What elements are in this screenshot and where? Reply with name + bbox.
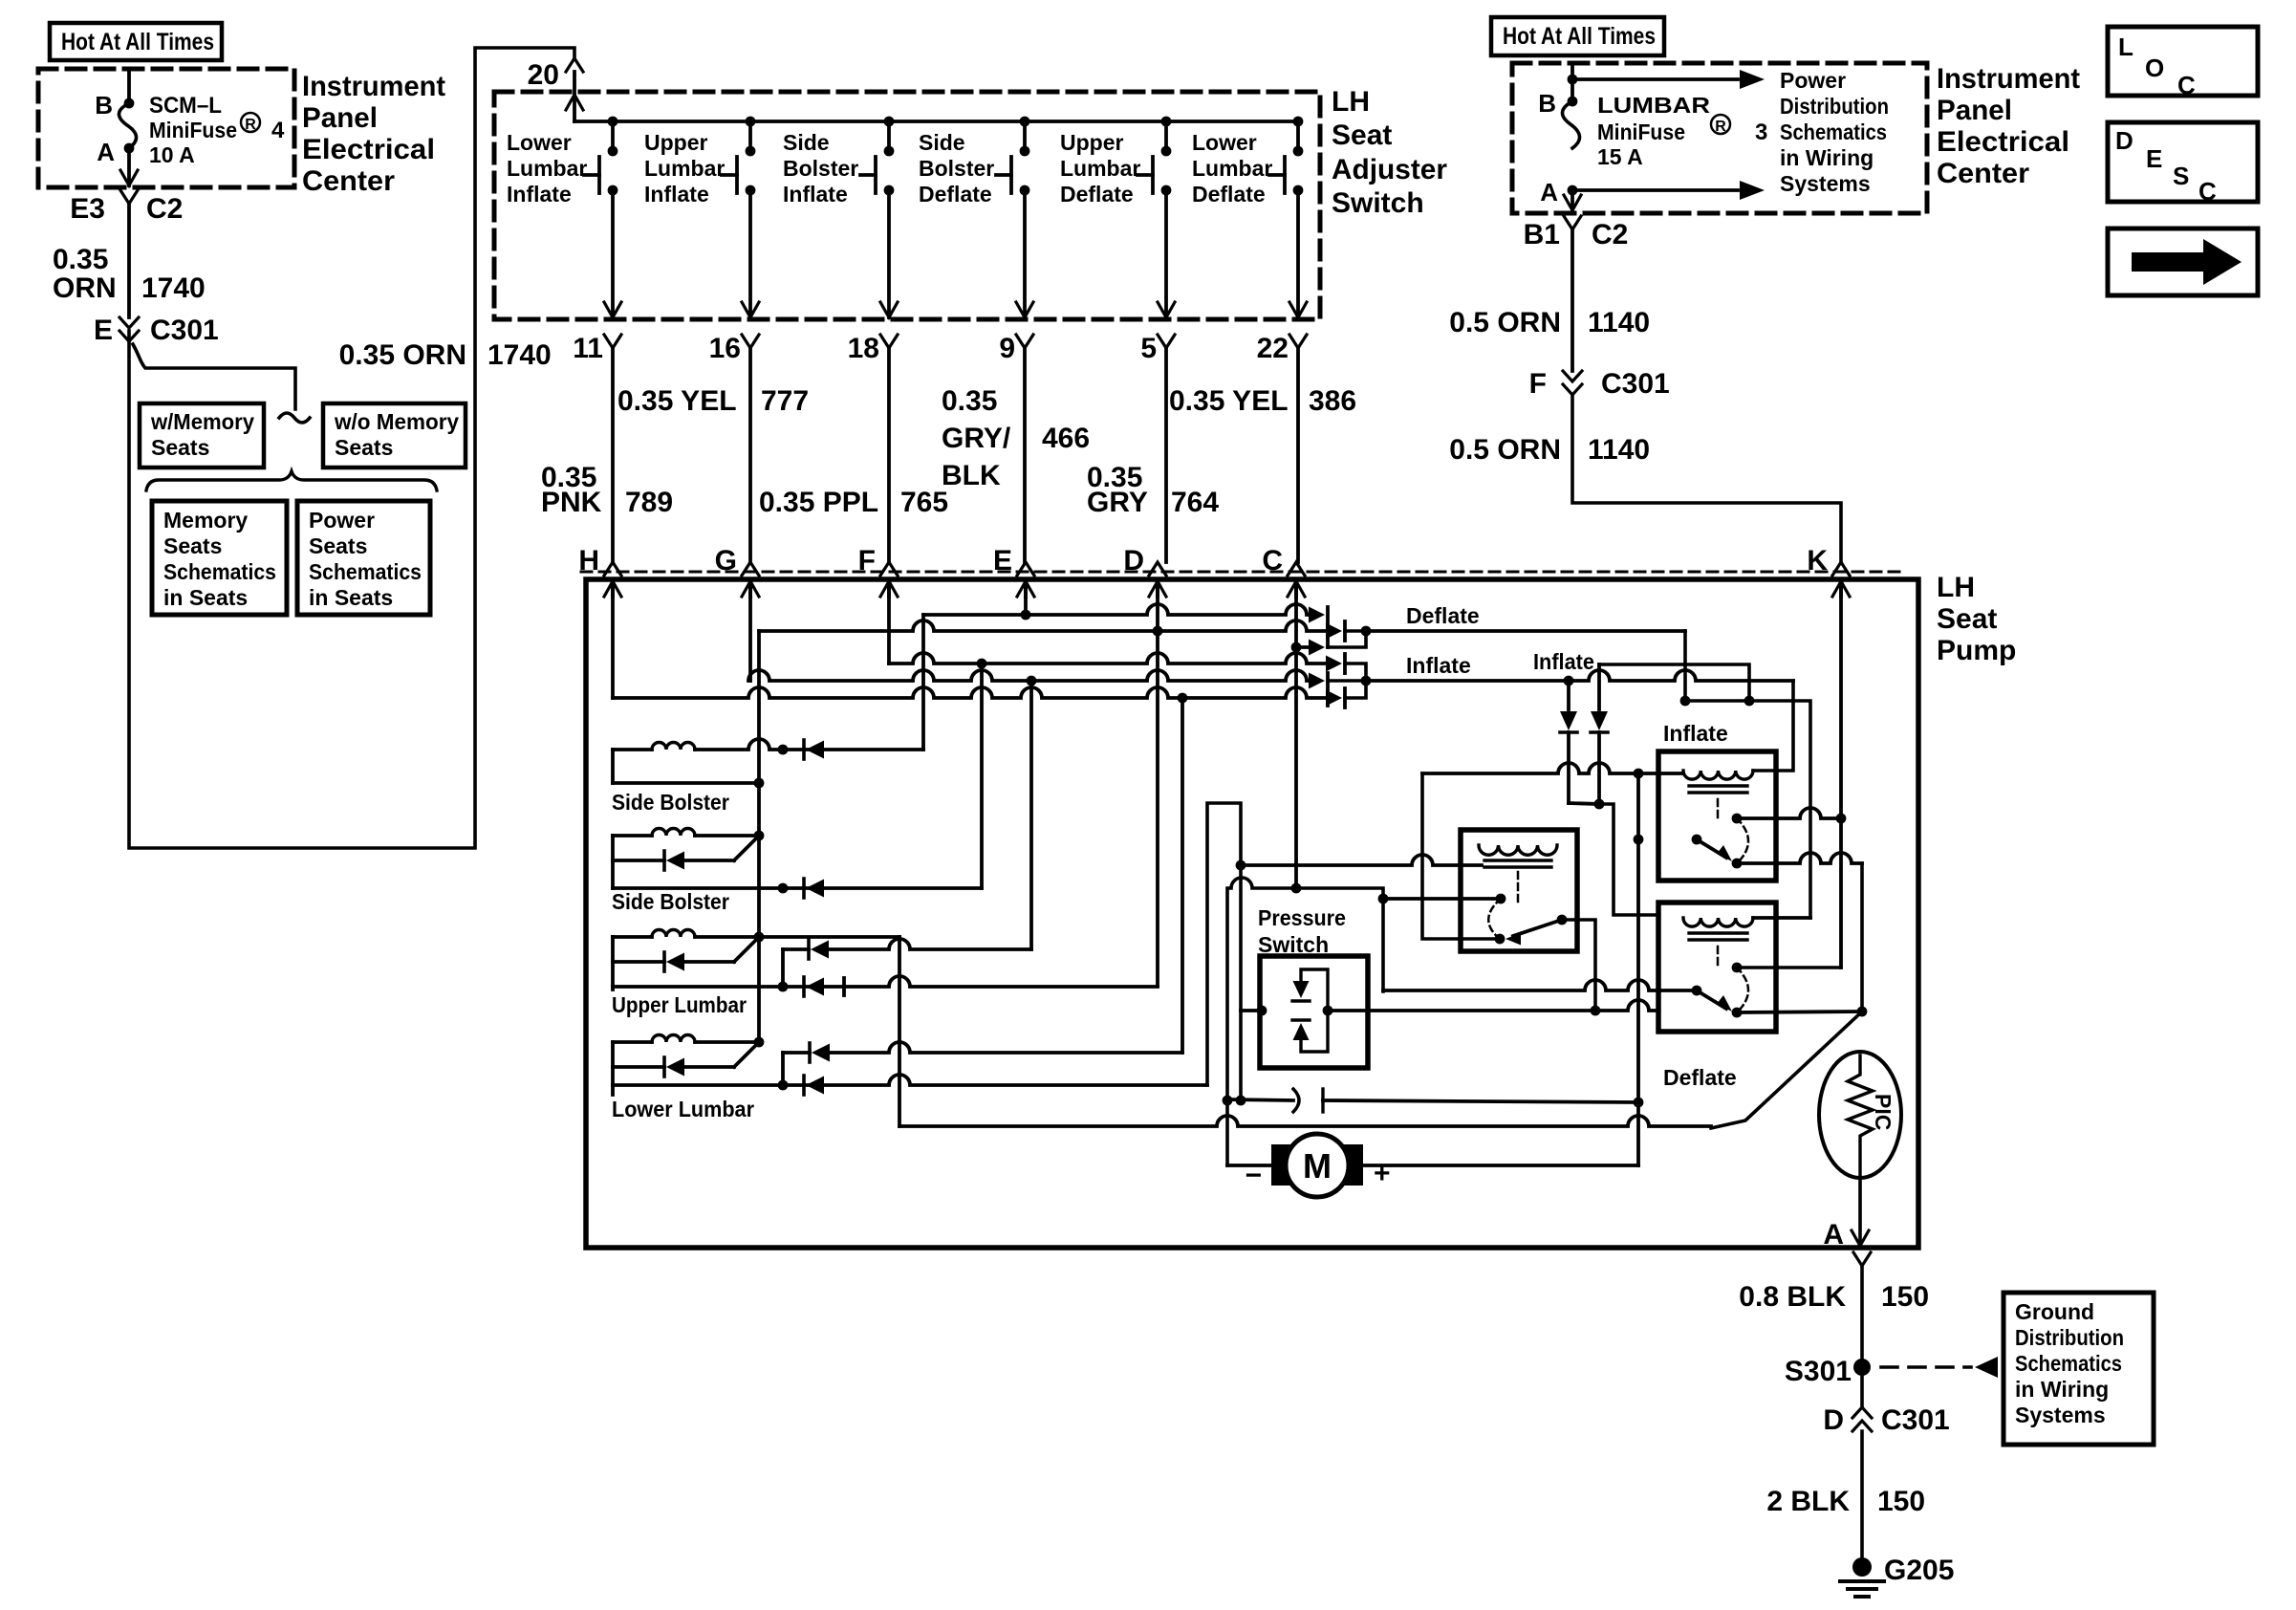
svg-text:Lower: Lower <box>1192 130 1257 155</box>
svg-text:E3: E3 <box>70 193 105 225</box>
wire: 2 BLK 150 from C301 to G205 <box>1860 1431 1864 1564</box>
svg-text:Switch: Switch <box>1258 932 1329 957</box>
svg-text:BLK: BLK <box>942 460 1001 491</box>
svg-text:in Seats: in Seats <box>163 585 248 610</box>
wire: deflate coil right feed <box>1753 916 1810 920</box>
svg-text:5: 5 <box>1140 333 1157 364</box>
svg-text:B: B <box>95 91 113 120</box>
svg-text:Power: Power <box>1780 68 1846 93</box>
svg-text:A: A <box>97 138 115 166</box>
wire: deflate relay common from K <box>1737 966 1841 969</box>
svg-text:2 BLK: 2 BLK <box>1766 1486 1850 1517</box>
wire: 0.35 ORN 1740 from C2 to C301 <box>127 204 131 317</box>
wire: right free-wheel diode up and over to 733 line <box>1599 664 1749 701</box>
arrow into pump at pin F <box>880 581 898 597</box>
svg-text:S301: S301 <box>1785 1356 1852 1387</box>
svg-text:0.5 ORN: 0.5 ORN <box>1449 307 1561 338</box>
node B of fuse 3 <box>1568 97 1578 107</box>
svg-text:Upper Lumbar: Upper Lumbar <box>612 992 747 1017</box>
wire: inflate output bus to inflate relay coil drop <box>1366 670 1793 681</box>
svg-text:Inflate: Inflate <box>783 182 848 207</box>
relay box: pump internal relay (middle) <box>1461 830 1577 951</box>
svg-text:Deflate: Deflate <box>1663 1065 1737 1090</box>
svg-text:D: D <box>1123 545 1144 577</box>
svg-text:Deflate: Deflate <box>1060 182 1134 207</box>
svg-text:386: 386 <box>1309 385 1356 417</box>
svg-text:Systems: Systems <box>2015 1403 2106 1427</box>
wire: feed into fuse SCM-L from top <box>127 71 131 103</box>
arrow into pump at pin D <box>1149 581 1166 597</box>
svg-text:22: 22 <box>1257 333 1289 364</box>
free-wheel diode (right) below inflate bus <box>1597 664 1601 709</box>
wire: lower lumbar output row <box>613 1075 1207 1085</box>
box: Pressure Switch <box>1260 956 1368 1068</box>
arrow into pump at pin C <box>1288 581 1305 597</box>
diode cluster: inflate diode d5 (from G L4) <box>1309 673 1325 689</box>
relay dashed actuator (deflate) <box>1717 946 1720 966</box>
svg-text:Upper: Upper <box>1060 130 1124 155</box>
node A of fuse 3 <box>1568 185 1578 196</box>
dashed box: LH Seat Adjuster Switch <box>494 92 1320 319</box>
svg-text:E: E <box>94 315 113 346</box>
wire: branch from C301 to w/o memory squiggle <box>133 344 295 409</box>
node: K at inflate relay <box>1836 814 1847 824</box>
wire: pressure output to deflate relay left contact row <box>1595 1000 1658 1011</box>
svg-text:Instrument: Instrument <box>1937 63 2080 95</box>
svg-text:Side: Side <box>919 130 965 155</box>
wire: 0.5 ORN 1140 from C301 to pump pin K <box>1572 395 1841 562</box>
box: LH Seat Pump <box>586 579 1918 1248</box>
svg-text:K: K <box>1807 545 1828 577</box>
svg-text:Adjuster: Adjuster <box>1332 154 1447 185</box>
wire: v941 riser from upper lumbar coil row down to long bottom bus <box>759 935 899 939</box>
diode cluster: deflate diode d1 (from E) <box>1309 607 1325 623</box>
wire from switch pin 16 down to pump pin <box>748 348 752 562</box>
svg-text:1740: 1740 <box>141 272 206 304</box>
wire: S301 to C301 pin D <box>1860 1367 1864 1407</box>
node: riser at inflate relay contact <box>1634 835 1644 845</box>
svg-text:MiniFuse: MiniFuse <box>149 118 237 142</box>
wire: pin H column down to inflate bus L5 <box>611 585 615 698</box>
svg-text:0.35: 0.35 <box>942 385 997 417</box>
svg-text:Pressure: Pressure <box>1258 905 1346 930</box>
svg-text:A: A <box>1540 178 1558 207</box>
svg-text:M: M <box>1303 1146 1332 1186</box>
DESC reference box <box>2108 122 2258 202</box>
svg-text:Lumbar: Lumbar <box>507 156 587 181</box>
svg-text:789: 789 <box>625 487 673 518</box>
svg-text:H: H <box>578 545 599 577</box>
forward arrow box <box>2108 228 2258 295</box>
node: supply at pressure contact line <box>1223 1096 1233 1106</box>
wire from switch pin 9 down to pump pin <box>1023 348 1027 562</box>
svg-text:Bolster: Bolster <box>783 156 858 181</box>
switch Lower Lumbar Inflate in adjuster switch <box>608 117 618 127</box>
svg-text:C: C <box>2177 71 2196 99</box>
switch Lower Lumbar Deflate in adjuster switch <box>1293 117 1304 127</box>
pressure switch right contact <box>1323 1006 1333 1016</box>
wire: lower lumbar diode diagonal <box>734 1044 757 1067</box>
wire: upper lumbar output row to D column <box>613 976 1158 987</box>
svg-text:0.35 PPL: 0.35 PPL <box>759 487 878 518</box>
svg-text:20: 20 <box>528 59 559 91</box>
wire from switch pin 5 down to pump pin <box>1164 348 1168 562</box>
svg-text:0.35 ORN: 0.35 ORN <box>339 339 466 371</box>
svg-text:Schematics: Schematics <box>309 559 422 584</box>
connector C301 pin D <box>1852 1407 1872 1418</box>
ref box: Ground Distribution Schematics in Wiring Systems <box>2004 1293 2154 1445</box>
wire: pin G column down to inflate bus L4 <box>748 585 752 681</box>
solenoid: upper lumbar coil row <box>613 935 652 939</box>
connector C2 pin B1 <box>1564 216 1581 229</box>
relay dashed actuator (middle) <box>1517 872 1520 903</box>
svg-text:150: 150 <box>1881 1281 1929 1313</box>
wire: deflate feed line L1 from E column <box>923 604 1311 615</box>
svg-text:Power: Power <box>309 508 375 533</box>
wire: lower lumbar second output with check diode to L5 riser <box>781 1053 785 1085</box>
wire: switch feed bus <box>574 120 1298 123</box>
svg-text:B: B <box>1538 89 1556 118</box>
node: C column at pressure switch <box>1291 883 1302 894</box>
connector C301 pin F <box>1563 371 1582 381</box>
svg-text:C2: C2 <box>1592 219 1628 250</box>
svg-text:Inflate: Inflate <box>1663 721 1728 746</box>
wire: side bolster 2 output row with diode <box>613 886 982 890</box>
wire: solenoid common vertical from L2 <box>757 631 761 1042</box>
svg-text:18: 18 <box>848 333 879 364</box>
wire: 0.35 ORN 1740 long path from C301 down right and up to switch pin 20 <box>129 48 574 848</box>
diode cluster: inflate diode d6 (from H L5) <box>1326 690 1342 707</box>
svg-text:Panel: Panel <box>302 102 378 134</box>
svg-text:PIC: PIC <box>1871 1094 1895 1130</box>
wire from switch pin 18 down to pump pin <box>887 348 891 562</box>
node B of fuse 4 <box>124 98 135 109</box>
wire: inflate relay coil left feed <box>1422 763 1683 773</box>
diode cluster: deflate diode d3 (from C) <box>1309 640 1325 656</box>
svg-text:D: D <box>2115 126 2134 155</box>
svg-text:Deflate: Deflate <box>919 182 992 207</box>
suppression diode of side bolster 2 <box>613 859 664 862</box>
relay contacts (inflate) <box>1732 814 1743 824</box>
fuse LUMBAR MiniFuse 3 15A <box>1562 101 1579 148</box>
node: inflate output junction <box>1361 676 1372 686</box>
node: stair at contact line <box>1236 1096 1246 1106</box>
PIC pressure resistor ellipse <box>1819 1052 1901 1178</box>
wire: diagonal from bottom bus to PIC junction <box>1711 1012 1862 1128</box>
node: C column to deflate diode feed <box>1291 642 1302 653</box>
splice S301 <box>1853 1359 1871 1376</box>
wire: inflate feed line L4 from G column <box>748 670 1311 681</box>
svg-text:4: 4 <box>271 118 285 143</box>
node: riser top at inflate coil feed <box>1634 769 1644 779</box>
svg-text:A: A <box>1823 1219 1844 1251</box>
svg-text:C301: C301 <box>1601 368 1670 400</box>
pressure contact gap symbol <box>1293 1089 1299 1112</box>
svg-text:C: C <box>1262 545 1283 577</box>
svg-text:11: 11 <box>573 333 603 364</box>
wire: v3 from L4 down to interior row <box>1029 681 1033 949</box>
svg-text:Pump: Pump <box>1937 635 2016 666</box>
svg-text:C: C <box>2199 177 2217 206</box>
svg-text:466: 466 <box>1042 423 1090 454</box>
svg-text:Seat: Seat <box>1332 120 1392 151</box>
svg-text:0.35: 0.35 <box>53 244 108 275</box>
svg-text:Inflate: Inflate <box>644 182 709 207</box>
relay coil (inflate) <box>1683 771 1753 779</box>
svg-text:1740: 1740 <box>487 339 552 371</box>
svg-text:Seats: Seats <box>309 533 367 558</box>
wire: motor positive to riser <box>1364 1164 1638 1167</box>
suppression diode of upper lumbar <box>613 960 664 964</box>
motor M of seat pump <box>1271 1144 1292 1186</box>
wire: side bolster 2 diode diagonal <box>734 838 757 860</box>
svg-text:Hot At All Times: Hot At All Times <box>1503 23 1656 50</box>
svg-text:Hot At All Times: Hot At All Times <box>61 29 214 55</box>
svg-text:Distribution: Distribution <box>1780 94 1889 119</box>
squiggle break: w/o memory seats branch <box>279 413 310 423</box>
wire: riser from inflate coil feed down to motor plus <box>1636 773 1640 1165</box>
label box: Hot At All Times (left) <box>50 23 222 60</box>
svg-text:E: E <box>2146 144 2162 173</box>
node: pressure output to middle relay riser <box>1591 1006 1601 1016</box>
svg-text:Deflate: Deflate <box>1406 603 1480 628</box>
relay box: Deflate relay <box>1658 903 1776 1032</box>
pressure switch left contact <box>1241 1009 1262 1012</box>
svg-text:1140: 1140 <box>1588 434 1650 466</box>
svg-text:1140: 1140 <box>1588 307 1650 338</box>
svg-text:Center: Center <box>302 165 395 197</box>
label box: Hot At All Times (right) <box>1491 17 1664 55</box>
dashed reference arrow to ground distribution <box>1881 1365 1971 1369</box>
wire: middle relay right contact riser to pressure output <box>1562 920 1595 1011</box>
svg-text:D: D <box>1823 1404 1844 1436</box>
svg-text:Distribution: Distribution <box>2015 1325 2124 1350</box>
node: upper lumbar coil junction <box>754 932 765 943</box>
wire: deflate relay output to PIC junction <box>1737 1012 1862 1012</box>
svg-text:Instrument: Instrument <box>302 71 445 102</box>
diode cluster: common bar inflate <box>1326 673 1330 706</box>
relay coil (middle) <box>1479 845 1557 855</box>
svg-text:Seats: Seats <box>163 533 222 558</box>
dashed box: Instrument Panel Electrical Center (left) <box>38 69 294 187</box>
wire: pressure path to deflate relay contact <box>1383 980 1697 990</box>
wire: 0.5 ORN 1140 from C2 to C301 <box>1570 229 1574 371</box>
svg-text:Switch: Switch <box>1332 187 1424 219</box>
wire: deflate drop to relay feeds <box>1685 631 1810 918</box>
svg-text:Schematics: Schematics <box>2015 1351 2122 1376</box>
svg-text:Side Bolster: Side Bolster <box>612 790 729 815</box>
wire: deflate feed from C column to diode <box>1296 645 1311 649</box>
wire: pressure lower contact line <box>1227 1099 1293 1100</box>
wire: side bolster 1 return row <box>613 781 759 785</box>
wire: diode pair bottom link <box>1569 803 1599 804</box>
relay box: Inflate relay <box>1658 751 1776 881</box>
svg-text:F: F <box>858 545 876 577</box>
fuse SCM-L MiniFuse 4 10A <box>119 103 136 148</box>
svg-text:Center: Center <box>1937 158 2029 189</box>
svg-text:in Wiring: in Wiring <box>2015 1377 2109 1402</box>
svg-text:0.35 YEL: 0.35 YEL <box>617 385 737 417</box>
svg-text:10 A: 10 A <box>149 142 195 167</box>
wire: side bolster 2 left join <box>611 836 615 888</box>
node: contact line at riser <box>1634 1098 1644 1108</box>
svg-text:0.5 ORN: 0.5 ORN <box>1449 434 1561 466</box>
wire from switch pin 11 down to pump pin <box>611 348 615 562</box>
svg-text:R: R <box>1715 119 1726 135</box>
svg-text:E: E <box>993 545 1012 577</box>
ref box: Memory Seats Schematics in Seats <box>152 501 287 615</box>
svg-text:SCM–L: SCM–L <box>149 93 222 119</box>
wire: v2 from L3 down to side bolster 2 output row <box>980 664 984 888</box>
node: side bolster 2 coil junction <box>754 831 765 841</box>
svg-text:G: G <box>715 545 737 577</box>
wire: 0.8 BLK 150 from pin A to S301 <box>1860 1266 1864 1367</box>
wire: pin C column down to pressure switch top <box>1294 585 1298 888</box>
svg-text:Schematics: Schematics <box>1780 120 1887 144</box>
arrow into pump at pin K <box>1832 581 1850 597</box>
wire: middle relay coil feed <box>1241 855 1482 865</box>
diode cluster: inflate diode d4 (from F L3) <box>1326 656 1342 672</box>
wire: inflate diode outputs join <box>1328 664 1366 698</box>
node: coil feed from stair <box>1236 860 1246 871</box>
svg-text:C301: C301 <box>150 315 219 346</box>
brace under memory boxes <box>146 471 437 490</box>
svg-text:LH: LH <box>1937 572 1975 603</box>
svg-text:G205: G205 <box>1884 1555 1954 1586</box>
diode cluster: deflate diode d2 (from D) <box>1326 623 1342 640</box>
wire: deflate output bus to deflate relay drop <box>1366 629 1685 633</box>
svg-text:Bolster: Bolster <box>919 156 994 181</box>
wire: PIC down to pump box edge with arrow <box>1858 1178 1862 1246</box>
wire: middle relay lower contact to inflate coil feed riser <box>1422 773 1500 939</box>
wire: side bolster 1 left end <box>611 750 615 783</box>
free-wheel diode (left) below inflate bus <box>1567 681 1570 709</box>
dashed connector line of LH seat pump <box>581 571 1902 574</box>
svg-text:Upper: Upper <box>644 130 708 155</box>
svg-text:LUMBAR: LUMBAR <box>1597 93 1710 118</box>
relay contacts (middle) <box>1496 894 1506 904</box>
svg-text:C2: C2 <box>146 193 183 225</box>
arrow to power distribution (bottom) <box>1572 188 1738 192</box>
svg-text:0.35 YEL: 0.35 YEL <box>1169 385 1289 417</box>
svg-text:9: 9 <box>999 333 1015 364</box>
node: deflate drop junction <box>1680 696 1691 707</box>
svg-text:GRY/: GRY/ <box>942 423 1011 454</box>
wire: upper lumbar diode diagonal <box>734 939 757 962</box>
solenoid: side bolster 2 coil row <box>613 834 652 838</box>
svg-text:764: 764 <box>1171 487 1219 518</box>
svg-text:−: − <box>1245 1160 1262 1191</box>
wire: pressure switch supply path <box>1227 878 1383 1165</box>
svg-text:15 A: 15 A <box>1597 144 1643 169</box>
svg-text:Systems: Systems <box>1780 171 1871 196</box>
junction on fuse feed <box>1568 75 1578 85</box>
svg-text:Lumbar: Lumbar <box>644 156 725 181</box>
svg-text:Seats: Seats <box>151 435 209 460</box>
node: return row to solenoid common <box>754 778 765 789</box>
wire: long bottom bus to diagonal <box>899 1116 1711 1126</box>
svg-text:Lower: Lower <box>507 130 572 155</box>
relay dashed actuator (inflate) <box>1717 799 1720 818</box>
ground G205 <box>1852 1557 1872 1577</box>
node: lower lumbar coil junction <box>754 1037 765 1048</box>
svg-text:w/o Memory: w/o Memory <box>334 409 459 434</box>
svg-text:Ground: Ground <box>2015 1299 2094 1324</box>
node: deflate output junction <box>1361 626 1372 637</box>
svg-text:B1: B1 <box>1524 219 1560 250</box>
svg-text:C301: C301 <box>1881 1404 1950 1436</box>
wire: feed into fuse LUMBAR from top <box>1570 65 1574 101</box>
connector C301 pin E <box>119 317 139 328</box>
LOC reference box <box>2108 27 2258 96</box>
wire: inflate coil right feed drop <box>1753 681 1793 771</box>
arrow into pump at pin H <box>604 581 621 597</box>
node: diode pair bottom junction <box>1594 799 1605 810</box>
svg-text:16: 16 <box>709 333 741 364</box>
wire: inflate feed line L3 from F column <box>889 653 1329 664</box>
relay contacts (deflate) <box>1732 963 1743 973</box>
connector C2 pin E3 (left) <box>120 190 138 204</box>
wire: pin D column down to upper lumbar output row <box>1156 585 1159 986</box>
wire: lower lumbar left join <box>611 1042 615 1095</box>
wire: diode pair link to deflate coil left <box>1599 804 1658 915</box>
ref box: Power Seats Schematics in Seats <box>297 501 430 615</box>
svg-text:Deflate: Deflate <box>1192 182 1266 207</box>
svg-text:Side Bolster: Side Bolster <box>612 889 729 914</box>
svg-text:0.8 BLK: 0.8 BLK <box>1739 1281 1846 1313</box>
wire: middle relay movable contact to left <box>1383 897 1501 901</box>
switch Side Bolster Deflate in adjuster switch <box>1020 117 1030 127</box>
svg-text:Side: Side <box>783 130 830 155</box>
wire: lower lumbar riser to stair <box>1207 803 1241 1100</box>
svg-text:Lumbar: Lumbar <box>1060 156 1140 181</box>
wire: upper lumbar left join <box>611 937 615 990</box>
svg-text:Inflate: Inflate <box>1533 649 1594 674</box>
wire: fuse A down to box edge with arrow <box>127 148 131 185</box>
wire: pin E column down to deflate bus L1 <box>1024 585 1028 615</box>
svg-text:w/Memory: w/Memory <box>150 409 254 434</box>
svg-text:+: + <box>1374 1158 1391 1189</box>
svg-text:in Wiring: in Wiring <box>1780 145 1874 170</box>
wire: pin K column down to deflate relay contact <box>1839 585 1843 968</box>
wire: v1 from L1 down to side bolster diode row <box>921 615 925 750</box>
node: middle relay contact at pressure path <box>1378 894 1389 904</box>
suppression diode of lower lumbar <box>613 1065 664 1069</box>
svg-text:Memory: Memory <box>163 508 248 533</box>
svg-text:Electrical: Electrical <box>302 134 435 165</box>
svg-text:Inflate: Inflate <box>507 182 572 207</box>
wire: deflate feed line L2 from D column <box>759 620 1329 631</box>
node: diode pair junction on 733 line <box>1744 696 1755 707</box>
wire: upper lumbar second output with check diode to v3 <box>781 949 785 987</box>
arrow into pump at pin E <box>1017 581 1034 597</box>
svg-text:GRY: GRY <box>1087 487 1148 518</box>
svg-text:150: 150 <box>1877 1486 1925 1517</box>
PIC resistor zigzag <box>1848 1055 1873 1178</box>
label box: w/Memory Seats <box>140 403 264 468</box>
switch Side Bolster Inflate in adjuster switch <box>884 117 895 127</box>
diode cluster: common bar deflate <box>1326 607 1330 647</box>
svg-text:MiniFuse: MiniFuse <box>1597 120 1685 144</box>
pressure switch actuator upper arrow <box>1293 981 1310 998</box>
svg-text:Schematics: Schematics <box>163 559 276 584</box>
svg-text:ORN: ORN <box>53 272 117 304</box>
node A of fuse 4 <box>124 143 135 154</box>
svg-text:Lumbar: Lumbar <box>1192 156 1272 181</box>
svg-text:L: L <box>2118 33 2134 61</box>
pressure switch actuator lower arrow <box>1293 1023 1310 1040</box>
svg-text:LH: LH <box>1332 86 1370 118</box>
